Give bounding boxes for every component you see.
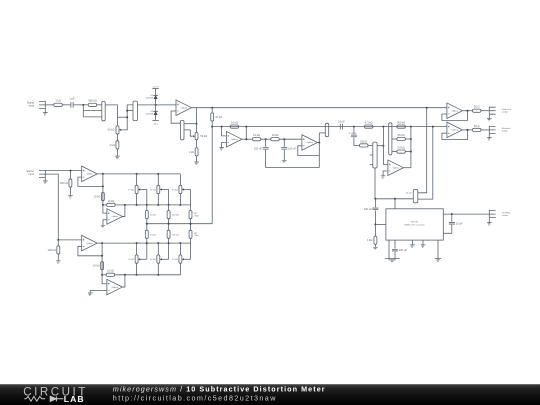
resistor R20b <box>189 230 192 238</box>
wire C9 to ground rail <box>394 252 396 259</box>
resistor R19a <box>167 211 170 219</box>
resistor R4 <box>211 113 222 121</box>
svg-text:10 kΩ: 10 kΩ <box>107 199 114 203</box>
resistor R6 <box>230 121 239 129</box>
wire D2 to V- rail <box>155 115 157 121</box>
ground at J2 <box>487 118 492 121</box>
wire P6 wiper down <box>140 190 147 211</box>
junction <box>283 138 285 140</box>
junction <box>136 242 138 244</box>
wire R4 down to attenuator grid <box>211 121 213 224</box>
wire U2 feedback <box>245 127 247 140</box>
ground rail under U9 <box>385 259 400 262</box>
ground below C6 <box>282 160 287 163</box>
wire rail to D1 <box>155 89 157 99</box>
potentiometer P4 (null depth) <box>325 123 328 136</box>
potentiometer P8 <box>179 185 182 193</box>
svg-text:OpAmp: OpAmp <box>231 138 237 141</box>
junction <box>168 223 170 225</box>
junction <box>426 107 428 109</box>
junction <box>382 145 384 147</box>
junction <box>245 126 247 128</box>
wire P7 bottom stub <box>157 194 159 205</box>
junction <box>126 110 128 112</box>
svg-text:OpAmp: OpAmp <box>307 141 313 144</box>
junction <box>467 110 469 112</box>
svg-text:10 kΩ: 10 kΩ <box>231 121 238 125</box>
svg-text:5.6 kΩ: 5.6 kΩ <box>397 146 405 150</box>
wire to R21 <box>57 240 59 246</box>
svg-text:OpAmp: OpAmp <box>112 215 118 218</box>
svg-text:10 kΩ: 10 kΩ <box>94 195 101 199</box>
capacitor C10 <box>449 221 463 225</box>
op-amp U2 <box>226 131 242 147</box>
junction <box>265 138 267 140</box>
P11 wiper arrow <box>182 258 184 260</box>
wire P9 bottom stub <box>136 263 138 275</box>
wire grid column top stub 2 <box>157 174 159 185</box>
wire U8 output feedback <box>122 205 125 217</box>
wire U7 output line <box>103 173 180 175</box>
wire residual line (to U6) <box>212 126 447 128</box>
svg-text:mikerogerswsm / 10 Subtractive: mikerogerswsm / 10 Subtractive Distortio… <box>113 384 326 393</box>
svg-text:50 kΩ: 50 kΩ <box>200 134 207 138</box>
wire U2 + input to ground <box>222 143 227 148</box>
V- rail bar <box>152 119 158 121</box>
junction <box>126 116 128 118</box>
svg-text:OpAmp: OpAmp <box>86 242 92 245</box>
capacitor C5 <box>254 146 269 150</box>
potentiometer P6 <box>135 185 138 193</box>
connector J1 signal input jack <box>39 101 45 109</box>
junction <box>136 274 138 276</box>
wire grid line 3 <box>147 223 212 225</box>
svg-text:500 Ω: 500 Ω <box>360 139 367 143</box>
switch T3 throw stub 2 <box>370 164 373 166</box>
wire C7 to R10 <box>354 138 360 146</box>
wire P1 wiper to T2 <box>121 105 133 130</box>
wire grid column top stub 3 <box>179 174 181 185</box>
svg-text:10 μF: 10 μF <box>338 119 345 123</box>
wire J2 to ground <box>488 115 490 119</box>
wire RMS input line <box>375 198 413 200</box>
resistor R16 <box>94 193 105 201</box>
ground at U2 <box>219 148 224 151</box>
wire to U9 left pin <box>375 223 386 225</box>
wire J5 right channel to U10 <box>45 174 81 240</box>
wire residual line down to RMS input <box>418 127 433 200</box>
svg-text:OpAmp: OpAmp <box>112 286 118 289</box>
wire J5 sleeve to ground <box>44 178 46 181</box>
resistor R10 <box>360 139 369 147</box>
P3 wiper arrow <box>193 135 195 137</box>
wire R13 to J2 <box>481 110 489 112</box>
wire P7 wiper down <box>162 190 169 211</box>
junction <box>57 239 59 241</box>
capacitor C4 <box>338 119 345 129</box>
svg-text:100 nF: 100 nF <box>254 146 262 150</box>
svg-text:100 kΩ: 100 kΩ <box>48 248 56 252</box>
wire T3 bottom to RMS input line <box>374 168 376 199</box>
wire R12 to ground <box>374 244 376 247</box>
ground at J4 <box>487 223 492 226</box>
wire R5 to ground <box>196 156 198 162</box>
wire U4 output to bus <box>403 167 411 169</box>
resistor R12 <box>367 236 377 244</box>
svg-text:100 μF: 100 μF <box>399 248 408 252</box>
wire R21 to ground <box>57 254 59 261</box>
svg-text:10 μF: 10 μF <box>456 221 463 225</box>
ground under U9 right pin <box>435 259 442 262</box>
junction <box>451 213 453 215</box>
wire U1 output down <box>192 108 197 133</box>
ground below R5 <box>194 162 199 165</box>
svg-text:10 kΩ: 10 kΩ <box>128 189 134 191</box>
ground at U11 <box>88 293 93 296</box>
wire R9 to U3 <box>279 138 302 140</box>
wire U10 output <box>97 242 102 244</box>
svg-text:100 kΩ: 100 kΩ <box>172 215 179 217</box>
junction <box>101 274 103 276</box>
wire R14 to J3 <box>481 129 489 131</box>
footer bar <box>0 384 540 405</box>
wire U10 feedback <box>78 246 102 255</box>
junction <box>101 255 103 257</box>
wire U9 pin to C9 <box>394 240 396 249</box>
resistor R21 <box>48 246 60 254</box>
wire T1 out to P1 <box>105 105 117 126</box>
ground at U9 pin 2 <box>421 245 426 248</box>
junction <box>382 126 384 128</box>
wire main line down to R11 <box>418 108 427 193</box>
junction <box>157 242 159 244</box>
wire J3 to ground <box>488 134 490 138</box>
wire U6 output <box>462 129 472 131</box>
resistor R8 <box>252 133 261 141</box>
switch T2 (input range) <box>133 101 137 121</box>
junction <box>168 204 170 206</box>
wire U11 output feedback <box>122 275 125 287</box>
wire node to C5 <box>265 139 267 147</box>
junction <box>394 198 396 200</box>
wire line2 to U2 inverting input <box>222 127 227 136</box>
capacitor C8 <box>364 207 379 211</box>
wire T4 to R7b <box>392 138 397 140</box>
potentiometer P2 (gain trim) <box>180 120 184 139</box>
wire to C10 <box>451 214 453 222</box>
resistor R7c <box>397 146 406 154</box>
ground at U9 pin 1 <box>410 245 415 248</box>
op-amp U6 <box>447 122 463 137</box>
resistor R2 <box>88 99 97 107</box>
connector J2 distortion output jack <box>489 107 495 115</box>
junction <box>146 223 148 225</box>
wire U7 feedback <box>78 177 103 186</box>
wire to T2 tap <box>127 110 133 112</box>
wire U3 output <box>317 142 319 144</box>
connector J3 residual output jack <box>489 126 495 134</box>
potentiometer P3 <box>195 133 198 140</box>
op-amp U11 <box>107 279 123 295</box>
wire P11 bottom stub <box>179 263 181 275</box>
junction <box>211 126 213 128</box>
wire pot row2 top stub 1 <box>136 243 138 255</box>
wire node A to T1 tap2 <box>83 116 102 118</box>
svg-text:10 kΩ: 10 kΩ <box>406 193 412 195</box>
P10 wiper arrow <box>160 258 162 260</box>
wire U6 feedback loop <box>442 130 468 140</box>
wire U4 + input to ground <box>383 171 388 176</box>
wire P3 to R5 <box>196 140 198 148</box>
switch T4 (gain range) <box>389 123 392 155</box>
svg-text:OpAmp: OpAmp <box>86 173 92 176</box>
wire P8 wiper down <box>184 190 191 211</box>
capacitor C1 <box>69 97 75 108</box>
junction <box>168 242 170 244</box>
wire U9 pin to ground <box>422 240 424 245</box>
svg-text:+15 V: +15 V <box>153 86 159 88</box>
wire node to C6 <box>283 139 285 147</box>
wire column 1 middle <box>146 219 148 231</box>
op-amp U5 <box>447 103 463 119</box>
junction <box>179 204 181 206</box>
wire U9 pin to ground <box>437 240 439 259</box>
svg-text:1 μF: 1 μF <box>69 97 75 101</box>
resistor R19b <box>167 230 170 238</box>
junction <box>136 204 138 206</box>
resistor R18a <box>145 211 148 219</box>
svg-text:10 kΩ: 10 kΩ <box>253 133 260 137</box>
svg-text:100 μF: 100 μF <box>364 207 373 211</box>
P6 wiper arrow <box>138 188 140 190</box>
wire pot row2 top stub 3 <box>179 243 181 255</box>
svg-text:10 kΩ: 10 kΩ <box>172 189 178 191</box>
junction <box>69 170 71 172</box>
svg-text:10 kΩ: 10 kΩ <box>150 234 156 236</box>
wire P2 tap to P3 wiper <box>184 130 192 136</box>
junction <box>146 242 148 244</box>
svg-text:10 kΩ: 10 kΩ <box>172 259 178 261</box>
potentiometer P7 <box>157 185 160 193</box>
potentiometer P1 <box>116 126 119 134</box>
resistor R18b <box>145 230 148 238</box>
op-amp U4 <box>388 160 404 176</box>
wire P11 wiper link <box>184 258 191 260</box>
junction <box>146 204 148 206</box>
wire U8 + input to ground <box>103 220 107 226</box>
svg-text:10 kΩ: 10 kΩ <box>93 264 100 268</box>
ground below R12 <box>373 247 378 250</box>
wire line2 to U4 inverting input <box>383 127 388 165</box>
wire J4 to ground <box>488 218 490 222</box>
svg-text:10 kΩ: 10 kΩ <box>107 269 114 273</box>
resistor R9 <box>271 133 280 141</box>
CircuitLab logo symbol (resistor zigzag and diode) <box>24 396 63 401</box>
junction <box>179 242 181 244</box>
ground at U4 <box>381 176 386 179</box>
wire T4 to R7c <box>392 151 397 153</box>
wire column 2 bottom <box>168 238 170 259</box>
wire R1 to C1 <box>62 104 70 106</box>
wire grid column top stub 1 <box>136 174 138 185</box>
wire D1 to D2 <box>155 99 157 115</box>
wire C10 to U9 pin <box>443 225 452 234</box>
junction <box>432 126 434 128</box>
wire U3 output vertical <box>318 133 320 156</box>
ground at J3 <box>487 138 492 141</box>
wire column 2 middle <box>168 219 170 231</box>
wire R15 to ground <box>69 187 71 196</box>
wire R3 to ground <box>116 149 118 156</box>
ground at U8 <box>101 225 106 228</box>
junction <box>374 198 376 200</box>
resistor R22 <box>93 262 104 270</box>
wire P10 wiper link <box>162 258 169 260</box>
junction <box>157 173 159 175</box>
op-amp U10 <box>82 235 98 251</box>
wire P6 bottom stub <box>136 194 138 205</box>
P9 wiper arrow <box>138 258 140 260</box>
junction <box>410 151 412 153</box>
wire line2 branch down <box>353 127 355 135</box>
resistor R1 <box>54 99 63 107</box>
wire grid line 5 <box>115 274 181 276</box>
junction <box>196 123 198 125</box>
resistor R14 <box>472 124 481 132</box>
svg-text:56 Ω: 56 Ω <box>474 105 480 109</box>
svg-text:Signalinput: Signalinput <box>27 100 35 107</box>
junction node A <box>82 104 84 106</box>
junction <box>157 204 159 206</box>
potentiometer P11 <box>179 255 182 263</box>
wire to R4 <box>211 108 213 113</box>
ground at J1 <box>43 113 48 116</box>
wire R7c to bus <box>405 151 411 153</box>
op-amp U8 <box>107 209 123 225</box>
svg-text:10 kΩ: 10 kΩ <box>128 259 134 261</box>
wire U10 out down to U11 input <box>102 243 107 284</box>
wire R7b to bus <box>405 138 411 140</box>
wire column 1 bottom <box>146 238 148 259</box>
junction <box>102 204 104 206</box>
svg-text:10 kΩ: 10 kΩ <box>215 115 222 119</box>
potentiometer P10 <box>157 255 160 263</box>
svg-text:10 kΩ: 10 kΩ <box>150 189 156 191</box>
resistor R20a <box>189 211 192 219</box>
resistor R15 <box>60 179 72 187</box>
svg-text:10 kΩ: 10 kΩ <box>150 215 156 217</box>
op-amp U3 <box>302 135 318 151</box>
wire J5 left channel to U7 <box>45 170 81 172</box>
svg-text:50 kΩ: 50 kΩ <box>108 128 115 132</box>
diode D1 <box>153 95 158 99</box>
wire to R15 <box>69 171 71 179</box>
svg-text:OpAmp: OpAmp <box>393 166 399 169</box>
svg-text:OpAmp: OpAmp <box>181 106 187 109</box>
wire U9 pin to ground rail <box>388 240 390 259</box>
svg-text:6.3 kΩ: 6.3 kΩ <box>365 121 373 125</box>
potentiometer P9 <box>135 255 138 263</box>
svg-text:560 kΩ: 560 kΩ <box>88 99 96 103</box>
resistor R23 <box>106 269 115 277</box>
wire U5 feedback loop <box>442 111 468 121</box>
wire P8 bottom stub <box>179 194 181 205</box>
svg-text:OpAmp: OpAmp <box>452 129 458 132</box>
resistor R7 <box>364 121 373 129</box>
wire T2 to U1 <box>137 104 176 106</box>
switch T3 (frequency range) <box>373 142 377 168</box>
wire to U9 input pin <box>394 199 396 209</box>
junction <box>101 242 103 244</box>
capacitor C9 <box>392 248 407 252</box>
junction <box>467 129 469 131</box>
wire U10 output line <box>102 242 190 244</box>
wire T1 tap link <box>117 116 127 118</box>
junction <box>410 126 412 128</box>
junction <box>318 142 320 144</box>
wire U9 pin to ground <box>411 240 413 245</box>
diode D2 <box>153 111 158 115</box>
V+ rail bar <box>152 88 158 90</box>
junction <box>221 126 223 128</box>
resistor R17 <box>107 199 116 207</box>
svg-text:100 kΩ: 100 kΩ <box>60 181 68 185</box>
wire U7 output <box>97 173 103 175</box>
wire U3 feedback loop <box>298 146 320 156</box>
wire C5 to U3 loop bottom <box>266 150 320 168</box>
wire to C8 <box>374 199 376 208</box>
wire U2 output <box>242 138 253 140</box>
wire feedback bus of U4 <box>410 127 412 168</box>
wire U11 + input to ground <box>90 290 107 293</box>
resistor R13 <box>472 105 481 113</box>
junction <box>353 126 355 128</box>
wire C1 to R2 <box>74 104 89 106</box>
junction <box>245 138 247 140</box>
svg-text:1 kΩ: 1 kΩ <box>55 99 60 103</box>
wire R10 to P5 <box>368 144 373 146</box>
ground below R3 <box>115 156 120 159</box>
svg-text:100 nF: 100 nF <box>288 146 296 150</box>
svg-text:1 kΩ: 1 kΩ <box>109 143 114 147</box>
svg-text:http://circuitlab.com/c5ed82u2: http://circuitlab.com/c5ed82u2t3naw <box>113 393 277 402</box>
wire grid line 2 <box>115 204 190 206</box>
wire pot row2 top stub 2 <box>157 243 159 255</box>
wire P9 wiper link <box>140 258 147 260</box>
wire J1 to R1 <box>45 104 54 106</box>
connector J5 stereo input jack <box>39 170 45 178</box>
wire J1 sleeve to ground <box>44 109 46 113</box>
junction <box>374 223 376 225</box>
svg-text:1 kΩ: 1 kΩ <box>189 150 194 154</box>
wire to P4 wiper tap <box>319 132 325 134</box>
svg-text:-15 V: -15 V <box>153 123 159 125</box>
wire C8 down <box>374 210 376 236</box>
wire P1 to R3 <box>116 134 118 141</box>
capacitor C7 <box>351 135 357 137</box>
junction <box>136 173 138 175</box>
svg-text:560 kΩ: 560 kΩ <box>397 121 405 125</box>
junction <box>102 185 104 187</box>
svg-text:LAB: LAB <box>64 394 85 404</box>
junction <box>124 274 126 276</box>
wire node A down <box>82 105 84 117</box>
connector J4 DC output jack <box>489 210 495 218</box>
wire column 3 middle <box>190 219 192 231</box>
junction diode clamp <box>155 104 157 106</box>
svg-text:1 kΩ: 1 kΩ <box>367 238 372 242</box>
junction <box>211 107 213 109</box>
